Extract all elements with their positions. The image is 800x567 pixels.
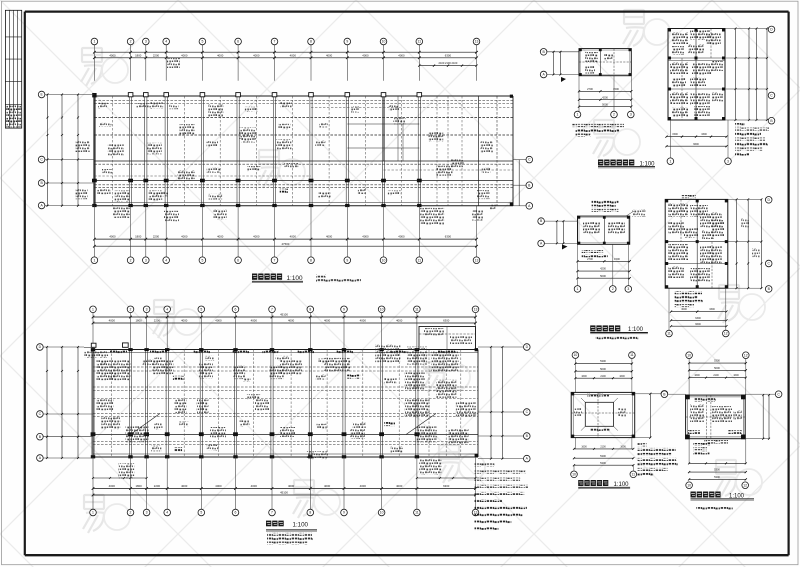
plan2 grid drop lines — [92, 313, 94, 350]
svg-text:5: 5 — [201, 258, 203, 262]
plan2 bottom drop lines — [92, 457, 94, 509]
plan1 top grid bubbles — [91, 38, 98, 45]
svg-text:2: 2 — [130, 307, 132, 311]
plan1 sub dimension line right — [419, 65, 476, 67]
svg-text:6300: 6300 — [695, 317, 701, 320]
plan2 annotation clusters — [96, 360, 130, 380]
svg-text:5300: 5300 — [714, 468, 720, 472]
svg-text:1800: 1800 — [135, 484, 142, 488]
detailF side bubbles — [661, 391, 668, 398]
svg-text:12: 12 — [724, 332, 728, 336]
plan2 right row bubbles — [524, 344, 531, 351]
detailD bottom dims — [671, 311, 726, 313]
svg-text:11: 11 — [632, 472, 636, 476]
svg-text:1: 1 — [669, 159, 671, 163]
svg-text:1600: 1600 — [733, 374, 739, 377]
svg-text:4000: 4000 — [396, 484, 403, 488]
svg-text:45100: 45100 — [280, 491, 288, 495]
svg-text:1800: 1800 — [135, 235, 142, 239]
svg-text:2100: 2100 — [600, 446, 606, 449]
detailA bottom drop lines — [578, 76, 580, 112]
svg-text:4000: 4000 — [109, 319, 116, 323]
svg-text:4000: 4000 — [253, 235, 260, 239]
svg-text:2: 2 — [130, 40, 132, 44]
detailE bottom dims — [574, 438, 576, 449]
svg-text:10: 10 — [380, 511, 384, 515]
detailF title — [691, 492, 696, 498]
svg-text:1:100: 1:100 — [293, 521, 309, 528]
svg-text:12: 12 — [743, 483, 747, 487]
plan2 left vertical dim lines — [46, 347, 48, 458]
watermark logo glyphs — [81, 48, 102, 86]
detailC left dim lines — [556, 221, 558, 243]
svg-text:10: 10 — [574, 353, 578, 357]
svg-text:11: 11 — [418, 40, 422, 44]
svg-text:4000: 4000 — [360, 319, 367, 323]
svg-text:10: 10 — [380, 307, 384, 311]
detailF water tank bottom slab plan — [661, 352, 782, 510]
svg-text:4000: 4000 — [362, 53, 369, 57]
detailC below annotation — [582, 250, 604, 253]
plan1 interior beam rows — [94, 117, 513, 119]
svg-text:6600: 6600 — [693, 143, 699, 146]
svg-text:7: 7 — [274, 258, 276, 262]
svg-text:6300: 6300 — [443, 319, 450, 323]
plan2 stair diagonal — [131, 414, 161, 435]
svg-text:3: 3 — [146, 307, 148, 311]
detailC left bubbles — [538, 218, 545, 225]
svg-text:4200: 4200 — [602, 95, 608, 99]
svg-text:4000: 4000 — [109, 53, 116, 57]
sheet inner frame — [25, 11, 789, 13]
svg-text:11: 11 — [667, 332, 671, 336]
plan2 right notes list — [475, 464, 495, 467]
svg-text:3: 3 — [630, 113, 632, 117]
plan2 interior beam rows — [93, 366, 478, 368]
detailC bottom bubbles — [574, 286, 581, 293]
detailD clusters — [668, 203, 688, 217]
svg-text:8: 8 — [309, 511, 311, 515]
detailE body — [571, 392, 635, 437]
svg-text:4000: 4000 — [181, 53, 188, 57]
svg-text:5000: 5000 — [600, 274, 606, 278]
svg-text:10: 10 — [382, 258, 386, 262]
svg-text:2: 2 — [130, 511, 132, 515]
svg-text:2200: 2200 — [154, 319, 161, 323]
title block strip (rotated, left margin) — [5, 10, 21, 128]
plan1 title side note — [316, 275, 326, 278]
plan2 top edge label strip — [110, 350, 127, 353]
svg-text:2200: 2200 — [153, 53, 160, 57]
svg-text:4000: 4000 — [324, 319, 331, 323]
detailD right dims — [736, 199, 738, 288]
detailA title — [598, 160, 603, 166]
detailD interior — [665, 241, 728, 243]
svg-text:4000: 4000 — [396, 319, 403, 323]
svg-text:1600: 1600 — [581, 446, 587, 449]
plan1 bottom grid bubbles — [91, 257, 98, 264]
plan1 title — [252, 274, 257, 280]
svg-text:2700: 2700 — [587, 257, 593, 261]
svg-text:6: 6 — [235, 511, 237, 515]
detailA left vertical dim — [553, 52, 555, 75]
detailA left row bubbles — [540, 49, 547, 56]
detailF right dims — [762, 395, 764, 439]
svg-text:13: 13 — [475, 258, 479, 262]
svg-text:12: 12 — [744, 353, 748, 357]
plan1 extra beam segments — [311, 107, 513, 109]
plan1 annotation clusters — [76, 141, 90, 152]
plan2 mid-bay beam verticals — [111, 350, 113, 458]
detailE top dims — [574, 359, 576, 393]
svg-text:6300: 6300 — [445, 235, 452, 239]
svg-text:1:100: 1:100 — [287, 275, 303, 282]
detailC bottom dims — [578, 260, 630, 262]
svg-text:5: 5 — [201, 40, 203, 44]
svg-text:3300: 3300 — [701, 133, 707, 136]
svg-text:4000: 4000 — [251, 484, 258, 488]
plan1 column blobs — [92, 93, 96, 97]
plan2 title — [266, 521, 271, 527]
svg-text:13: 13 — [474, 307, 478, 311]
svg-text:9: 9 — [343, 511, 345, 515]
svg-text:10: 10 — [687, 353, 691, 357]
plan1 mid-bay beam verticals — [112, 96, 114, 206]
detailF body — [686, 395, 746, 439]
svg-text:5: 5 — [200, 511, 202, 515]
svg-text:4000: 4000 — [288, 484, 295, 488]
plan2 column grid verticals — [91, 350, 93, 458]
detailC annotation above — [592, 201, 619, 204]
svg-text:4000: 4000 — [326, 235, 333, 239]
svg-text:6600: 6600 — [695, 323, 701, 326]
svg-text:5300: 5300 — [600, 461, 606, 465]
detailE right dim — [635, 393, 651, 395]
svg-text:1: 1 — [93, 40, 95, 44]
svg-text:1: 1 — [92, 307, 94, 311]
svg-text:4000: 4000 — [362, 235, 369, 239]
detailB bottom drop lines — [669, 120, 671, 158]
svg-text:5300: 5300 — [714, 475, 720, 479]
svg-text:9: 9 — [343, 307, 345, 311]
detailB bottom dim lines — [667, 136, 727, 138]
svg-text:1600: 1600 — [619, 375, 625, 378]
svg-text:5300: 5300 — [600, 454, 606, 458]
plan1 grid drop lines from bubbles — [93, 45, 95, 81]
plan1 top dimension lines — [94, 51, 476, 53]
detailC section mark — [562, 245, 568, 250]
svg-text:8: 8 — [310, 258, 312, 262]
plan1 bottom dimension lines — [94, 238, 476, 240]
svg-text:2: 2 — [612, 287, 614, 291]
svg-text:11: 11 — [415, 307, 419, 311]
svg-text:1500: 1500 — [672, 133, 678, 136]
svg-text:4000: 4000 — [215, 319, 222, 323]
svg-text:13: 13 — [475, 40, 479, 44]
svg-text:1: 1 — [577, 113, 579, 117]
svg-text:1800: 1800 — [135, 53, 142, 57]
detailE water tank top plan — [571, 352, 678, 489]
svg-text:3: 3 — [146, 511, 148, 515]
svg-text:11: 11 — [630, 353, 634, 357]
svg-text:5000: 5000 — [600, 367, 606, 371]
svg-text:7: 7 — [271, 511, 273, 515]
plan2 column blobs — [91, 348, 95, 351]
svg-text:4000: 4000 — [181, 235, 188, 239]
svg-text:1600: 1600 — [620, 446, 626, 449]
plan1 scattered beam labels — [98, 103, 108, 109]
detailE notes — [638, 443, 647, 446]
svg-text:4000: 4000 — [398, 235, 405, 239]
svg-text:11: 11 — [415, 511, 419, 515]
plan1 body outline — [94, 95, 513, 97]
svg-text:4000: 4000 — [217, 53, 224, 57]
plan2 title notes — [267, 533, 312, 536]
svg-text:9: 9 — [346, 40, 348, 44]
svg-text:5300: 5300 — [714, 359, 720, 363]
detailF clusters — [694, 398, 716, 402]
detailC bottom drop lines — [577, 244, 579, 285]
svg-text:10: 10 — [687, 483, 691, 487]
detailF top dims — [688, 359, 690, 396]
svg-text:4000: 4000 — [326, 53, 333, 57]
svg-text:3300: 3300 — [709, 308, 715, 311]
detailF bottom bubbles — [686, 482, 693, 489]
svg-text:1500: 1500 — [614, 257, 620, 261]
detailF below annotation — [693, 443, 710, 446]
svg-text:45100: 45100 — [280, 313, 288, 317]
svg-text:4000: 4000 — [290, 53, 297, 57]
detailB small roof slab plan — [665, 26, 774, 164]
plan1 right row bubbles — [526, 156, 533, 163]
svg-text:6: 6 — [237, 258, 239, 262]
svg-text:1600: 1600 — [581, 375, 587, 378]
plan1 roof beam layout — [38, 38, 532, 282]
plan2 top-right protrusion — [419, 327, 476, 350]
plan2 left row bubbles — [37, 344, 44, 351]
detailA section mark — [561, 77, 566, 82]
title block text cells — [6, 106, 21, 128]
detailE top bubbles — [572, 352, 579, 359]
plan2 top dimension lines — [93, 316, 476, 318]
svg-text:4000: 4000 — [181, 319, 188, 323]
detailE tank opening — [585, 402, 613, 426]
plan2 top grid bubbles — [90, 306, 97, 313]
detailC upper-right leader — [633, 209, 646, 217]
plan2 floor slab layout — [37, 306, 530, 545]
svg-text:7: 7 — [274, 40, 276, 44]
svg-text:4000: 4000 — [253, 53, 260, 57]
detailC small roof slab plan — [538, 201, 648, 340]
plan2 bottom end sub-dims — [93, 477, 147, 479]
svg-text:4: 4 — [166, 307, 168, 311]
detailA small roof beam plan — [540, 49, 655, 168]
svg-text:1: 1 — [92, 511, 94, 515]
svg-text:4000: 4000 — [398, 53, 405, 57]
svg-text:4000: 4000 — [181, 484, 188, 488]
svg-text:2: 2 — [130, 258, 132, 262]
svg-text:4000: 4000 — [251, 319, 258, 323]
detailF bottom dims — [688, 439, 690, 464]
svg-text:2200: 2200 — [153, 235, 160, 239]
svg-text:5300: 5300 — [600, 359, 606, 363]
plan1 washroom partition lines — [347, 123, 419, 125]
svg-text:4000: 4000 — [215, 484, 222, 488]
svg-text:4: 4 — [166, 511, 168, 515]
svg-text:6300: 6300 — [445, 53, 452, 57]
svg-text:11: 11 — [418, 258, 422, 262]
svg-text:7: 7 — [271, 307, 273, 311]
detailF top bubbles — [686, 352, 693, 359]
svg-text:3000: 3000 — [681, 308, 687, 311]
detailE bottom bubbles — [571, 471, 578, 478]
plan1 right vertical dim lines — [512, 160, 514, 206]
svg-text:3: 3 — [145, 40, 147, 44]
detailB interior — [668, 57, 725, 59]
plan1 left vertical dim lines — [47, 95, 49, 206]
svg-text:4000: 4000 — [290, 235, 297, 239]
svg-text:5000: 5000 — [714, 366, 720, 370]
svg-text:6: 6 — [235, 307, 237, 311]
plan2 bottom grid bubbles — [90, 509, 97, 516]
detailA note text — [572, 124, 624, 127]
svg-text:2100 2100 2100: 2100 2100 2100 — [439, 61, 458, 65]
detailB right bubbles — [768, 26, 775, 33]
svg-text:4000: 4000 — [288, 319, 295, 323]
svg-text:3: 3 — [145, 258, 147, 262]
detailD below annotation — [674, 291, 702, 294]
detailB right dim lines — [735, 29, 737, 121]
detailD right bubbles — [765, 197, 772, 204]
detailB bottom bubbles — [667, 158, 674, 165]
detailA bottom bubbles — [574, 111, 581, 118]
plan1 bottom drop lines — [93, 206, 95, 257]
svg-text:1600: 1600 — [694, 374, 700, 377]
plan1 column grid verticals — [92, 96, 94, 206]
svg-text:6: 6 — [237, 40, 239, 44]
svg-text:4000: 4000 — [109, 235, 116, 239]
svg-text:1: 1 — [577, 287, 579, 291]
plan2 right vertical dim lines — [490, 347, 492, 459]
svg-text:47500: 47500 — [282, 242, 290, 246]
detailA body — [579, 49, 631, 76]
svg-text:4000: 4000 — [324, 484, 331, 488]
detailB clusters — [672, 32, 688, 44]
svg-text:3: 3 — [727, 159, 729, 163]
svg-text:4: 4 — [165, 40, 167, 44]
svg-text:3: 3 — [627, 287, 629, 291]
svg-text:5: 5 — [200, 307, 202, 311]
svg-text:9: 9 — [346, 258, 348, 262]
svg-text:2100: 2100 — [600, 375, 606, 378]
svg-text:8: 8 — [310, 40, 312, 44]
svg-text:1800: 1800 — [135, 319, 142, 323]
svg-text:10: 10 — [572, 472, 576, 476]
svg-text:10: 10 — [382, 40, 386, 44]
svg-text:8: 8 — [309, 307, 311, 311]
svg-text:2700: 2700 — [587, 87, 593, 91]
svg-text:2: 2 — [613, 113, 615, 117]
plan2 body outline — [93, 349, 478, 351]
svg-text:5000: 5000 — [602, 102, 608, 106]
detailD small slab plan — [665, 195, 772, 337]
detailC body — [578, 216, 630, 244]
svg-text:4000: 4000 — [217, 235, 224, 239]
svg-text:4: 4 — [165, 258, 167, 262]
svg-text:4200: 4200 — [600, 267, 606, 271]
detailE right bubble — [661, 391, 668, 398]
plan2 bottom dimension lines — [93, 488, 476, 490]
detailE title — [578, 480, 583, 486]
svg-text:1: 1 — [93, 258, 95, 262]
detailC title — [590, 325, 595, 331]
plan1 left row bubbles — [38, 91, 45, 98]
plan2 top-left column stubs — [84, 346, 93, 348]
detailB notes — [735, 123, 745, 126]
svg-text:2100: 2100 — [713, 374, 719, 377]
plan2 scattered beam labels — [101, 361, 108, 366]
detailD bottom bubbles — [666, 330, 673, 337]
svg-text:2200: 2200 — [154, 484, 161, 488]
detailD bottom drop lines — [668, 288, 670, 330]
svg-text:4000: 4000 — [109, 484, 116, 488]
svg-text:4000: 4000 — [360, 484, 367, 488]
detailA bottom dim lines — [579, 90, 631, 92]
svg-text:6300: 6300 — [443, 484, 450, 488]
